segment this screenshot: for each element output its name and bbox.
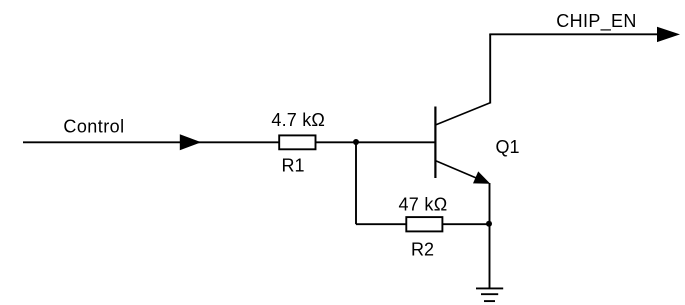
svg-text:R1: R1 bbox=[282, 156, 305, 176]
svg-text:R2: R2 bbox=[411, 240, 434, 260]
transistor Q1 bbox=[435, 103, 490, 184]
node base junction bbox=[353, 139, 359, 145]
resistor R2 bbox=[406, 217, 442, 231]
svg-text:47 kΩ: 47 kΩ bbox=[399, 194, 448, 214]
emitter diagonal bbox=[435, 161, 481, 180]
node emitter junction bbox=[486, 221, 492, 227]
wire CHIP_EN output bbox=[489, 33, 661, 35]
wire to R2 bbox=[356, 223, 407, 225]
wire base node down bbox=[355, 142, 357, 224]
resistor R1 bbox=[279, 135, 315, 149]
wire R2 to emitter node bbox=[442, 223, 490, 225]
wire collector up bbox=[489, 34, 491, 103]
wire emitter down to ground bbox=[489, 183, 491, 288]
svg-text:Control: Control bbox=[63, 116, 124, 136]
wire Control input bbox=[23, 141, 280, 143]
arrowhead CHIP_EN bbox=[657, 27, 680, 42]
ground bbox=[476, 288, 503, 301]
svg-text:Q1: Q1 bbox=[496, 137, 520, 157]
collector diagonal bbox=[435, 103, 490, 125]
base bar bbox=[434, 107, 436, 179]
emitter arrowhead bbox=[473, 171, 490, 183]
svg-text:CHIP_EN: CHIP_EN bbox=[556, 11, 636, 32]
wire R1 to base bbox=[316, 141, 436, 143]
signal-flow arrow on Control wire bbox=[180, 134, 201, 150]
svg-text:4.7 kΩ: 4.7 kΩ bbox=[271, 110, 325, 130]
